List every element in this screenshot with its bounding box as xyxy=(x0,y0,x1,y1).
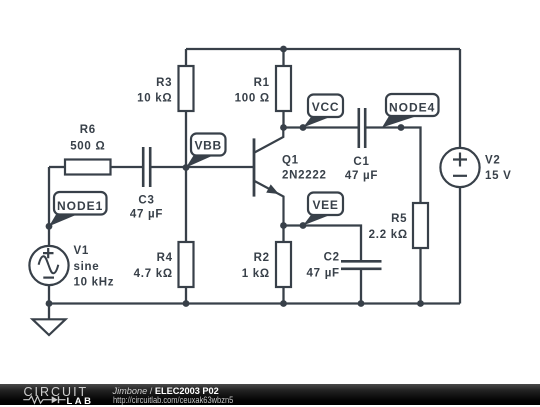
wire R5 bottom to ground rail xyxy=(419,248,421,304)
voltage source V2 xyxy=(440,148,479,187)
svg-text:R2: R2 xyxy=(254,252,270,264)
svg-text:C3: C3 xyxy=(138,195,154,207)
node flag NODE1 xyxy=(49,192,107,226)
wire R2 bottom to ground rail xyxy=(282,287,284,304)
wire left top rail into R3 xyxy=(185,49,187,66)
svg-text:R3: R3 xyxy=(156,77,172,89)
footer bar xyxy=(0,384,540,405)
resistor R2 xyxy=(276,242,291,287)
svg-text:V1: V1 xyxy=(74,245,90,257)
junction dot R4 ground xyxy=(183,300,190,307)
svg-text:10 kΩ: 10 kΩ xyxy=(137,93,172,105)
footer logo LAB xyxy=(67,396,94,407)
svg-text:Q1: Q1 xyxy=(282,155,299,167)
junction dot top rail R1 xyxy=(280,46,287,53)
voltage source V1 xyxy=(29,246,68,285)
wire R1 bottom to collector node xyxy=(282,111,284,128)
svg-text:NODE1: NODE1 xyxy=(57,199,103,213)
node flag VBB xyxy=(186,134,226,168)
wire C2 bottom to ground rail xyxy=(360,270,362,304)
wire C3 to base xyxy=(151,166,254,168)
svg-text:C2: C2 xyxy=(324,252,340,264)
svg-text:15 V: 15 V xyxy=(485,170,512,182)
capacitor C3 xyxy=(143,147,150,187)
svg-text:47 µF: 47 µF xyxy=(345,170,378,182)
wire R6 to C3 xyxy=(111,166,143,168)
wire collector node to C1 xyxy=(284,126,358,128)
wire C1 to NODE4 corner into R5 xyxy=(365,128,420,204)
junction dot R2 ground xyxy=(280,300,287,307)
svg-text:47 µF: 47 µF xyxy=(130,209,163,221)
node flag VEE xyxy=(303,193,343,226)
footer url xyxy=(113,395,233,405)
junction dot VEE flag anchor xyxy=(300,222,307,229)
junction dot C2 ground xyxy=(358,300,365,307)
svg-text:R4: R4 xyxy=(157,252,173,264)
svg-text:VBB: VBB xyxy=(194,138,221,152)
wire input node to R6 xyxy=(49,166,65,168)
capacitor C2 xyxy=(341,261,382,269)
resistor R3 xyxy=(179,66,194,111)
svg-text:R6: R6 xyxy=(80,124,96,136)
svg-text:V2: V2 xyxy=(485,155,501,167)
svg-text:1 kΩ: 1 kΩ xyxy=(242,268,270,280)
wire V2 top stub xyxy=(459,49,461,148)
svg-text:R5: R5 xyxy=(391,213,407,225)
wire R2 top stub xyxy=(282,226,284,243)
junction dot emitter node xyxy=(280,222,287,229)
svg-text:C1: C1 xyxy=(353,156,369,168)
resistor R6 xyxy=(65,160,111,175)
junction dot NODE1 flag anchor xyxy=(46,223,53,230)
svg-text:R1: R1 xyxy=(254,77,270,89)
junction dot collector node xyxy=(280,124,287,131)
ground xyxy=(33,319,66,335)
node flag NODE4 xyxy=(382,94,439,128)
junction dot R5 ground xyxy=(417,300,424,307)
wire input rail down to V1 xyxy=(48,167,50,246)
svg-text:2N2222: 2N2222 xyxy=(282,170,327,182)
wire emitter node to C2 corner xyxy=(284,226,362,261)
transistor Q1 xyxy=(254,128,284,226)
svg-text:sine: sine xyxy=(74,261,100,273)
wire V2 bottom to ground rail xyxy=(459,187,461,304)
svg-text:VCC: VCC xyxy=(312,100,339,114)
junction dot NODE4 flag anchor xyxy=(398,124,405,131)
svg-text:NODE4: NODE4 xyxy=(389,100,435,114)
capacitor C1 xyxy=(359,108,365,148)
footer logo CIRCUIT xyxy=(24,385,89,399)
svg-text:47 µF: 47 µF xyxy=(307,268,340,280)
wire R3 to R4 through VBB node xyxy=(185,111,187,242)
svg-text:10 kHz: 10 kHz xyxy=(74,277,115,289)
junction dot VCC flag anchor xyxy=(300,124,307,131)
transistor Q1 emitter arrow xyxy=(267,185,278,193)
svg-text:2.2 kΩ: 2.2 kΩ xyxy=(369,229,408,241)
footer title xyxy=(113,386,219,396)
wire ground stub below V1 xyxy=(48,304,50,320)
node flag VCC xyxy=(303,95,343,128)
wire top rail xyxy=(186,48,460,50)
wire R1 top stub xyxy=(282,49,284,66)
wire R4 bottom to ground rail xyxy=(185,287,187,304)
footer logo symbol xyxy=(22,395,68,405)
svg-text:100 Ω: 100 Ω xyxy=(235,93,270,105)
resistor R5 xyxy=(413,203,428,248)
svg-text:500 Ω: 500 Ω xyxy=(70,141,105,153)
resistor R1 xyxy=(276,66,291,111)
junction dot VBB node xyxy=(183,164,190,171)
junction dot V1 ground xyxy=(46,300,53,307)
wire V1 bottom to ground rail xyxy=(48,286,50,304)
wire bottom ground rail xyxy=(49,302,460,304)
svg-text:VEE: VEE xyxy=(312,198,338,212)
svg-text:4.7 kΩ: 4.7 kΩ xyxy=(134,268,173,280)
resistor R4 xyxy=(179,242,194,287)
